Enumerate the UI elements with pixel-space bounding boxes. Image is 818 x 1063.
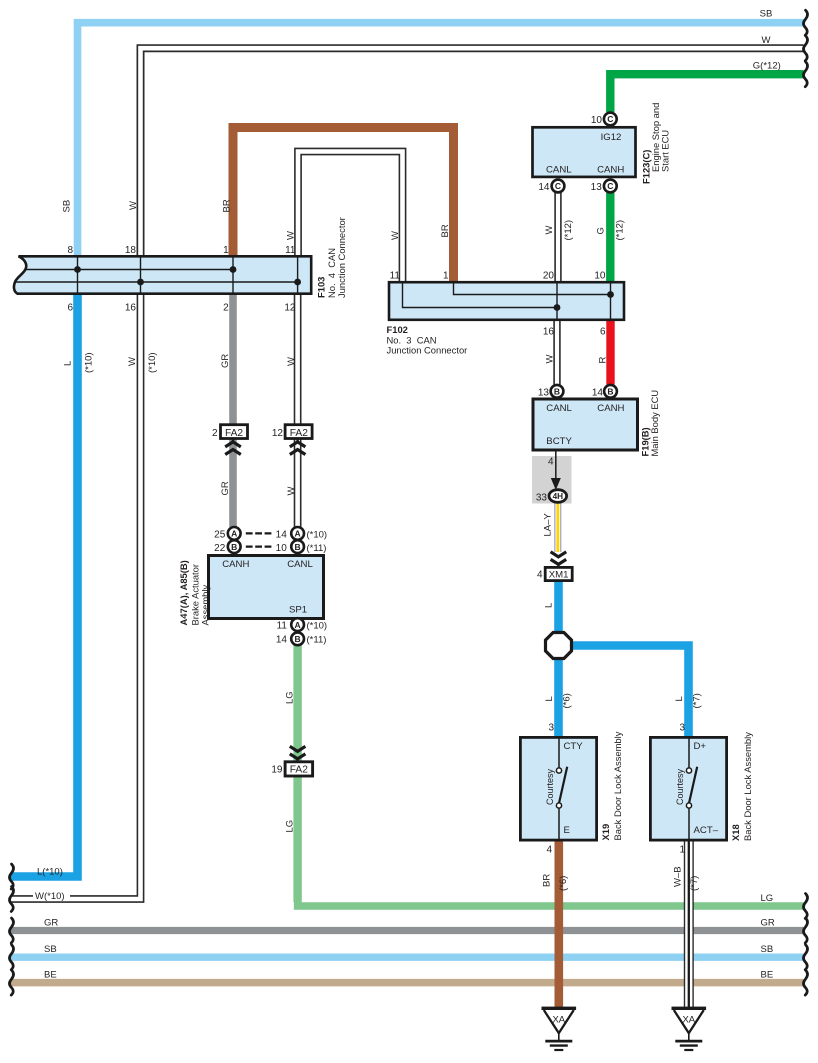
- svg-text:33: 33: [536, 493, 548, 504]
- svg-text:CANH: CANH: [597, 403, 624, 414]
- svg-text:14: 14: [538, 182, 550, 193]
- svg-text:2: 2: [223, 303, 229, 314]
- svg-text:R: R: [598, 357, 609, 364]
- svg-text:CANH: CANH: [222, 559, 249, 570]
- svg-text:4H: 4H: [553, 492, 564, 501]
- svg-text:C: C: [607, 181, 613, 191]
- svg-text:8: 8: [67, 245, 73, 256]
- svg-text:GR: GR: [220, 481, 231, 495]
- svg-text:6: 6: [67, 303, 73, 314]
- svg-text:L: L: [674, 696, 685, 701]
- svg-text:W: W: [286, 231, 297, 240]
- svg-text:CANL: CANL: [287, 559, 313, 570]
- svg-text:W: W: [545, 355, 556, 364]
- svg-text:10: 10: [276, 543, 288, 554]
- svg-text:14: 14: [276, 529, 288, 540]
- svg-text:3: 3: [548, 723, 554, 734]
- svg-text:Back Door Lock Assembly: Back Door Lock Assembly: [742, 732, 753, 841]
- svg-text:(*10): (*10): [84, 352, 95, 373]
- svg-text:4: 4: [548, 457, 554, 468]
- svg-text:W: W: [128, 201, 139, 210]
- svg-text:W: W: [390, 231, 401, 240]
- svg-text:12: 12: [284, 303, 296, 314]
- svg-text:14: 14: [276, 635, 288, 646]
- svg-text:W: W: [762, 35, 771, 46]
- svg-text:XA: XA: [682, 1015, 695, 1026]
- svg-text:18: 18: [125, 245, 137, 256]
- svg-text:X18: X18: [730, 824, 741, 841]
- svg-text:20: 20: [543, 271, 555, 282]
- svg-text:L(*10): L(*10): [37, 867, 63, 878]
- svg-text:IG12: IG12: [601, 132, 622, 143]
- svg-text:(*10): (*10): [307, 529, 328, 540]
- svg-text:11: 11: [390, 271, 401, 282]
- svg-text:B: B: [295, 634, 301, 644]
- svg-text:X19: X19: [600, 824, 611, 841]
- svg-text:E: E: [564, 825, 570, 836]
- svg-text:Courtesy: Courtesy: [675, 768, 685, 805]
- svg-text:25: 25: [214, 529, 226, 540]
- svg-text:CANL: CANL: [546, 403, 572, 414]
- svg-text:FA2: FA2: [225, 428, 243, 439]
- svg-text:11: 11: [285, 245, 296, 256]
- svg-text:A: A: [231, 529, 237, 539]
- svg-text:BCTY: BCTY: [546, 436, 572, 447]
- svg-text:ACT–: ACT–: [694, 825, 719, 836]
- svg-text:3: 3: [679, 723, 685, 734]
- svg-text:Courtesy: Courtesy: [545, 768, 555, 805]
- svg-text:SB: SB: [44, 944, 57, 955]
- svg-text:A: A: [295, 620, 301, 630]
- svg-text:Start ECU: Start ECU: [660, 130, 671, 172]
- svg-text:CANH: CANH: [597, 165, 624, 176]
- svg-text:LG: LG: [761, 893, 774, 904]
- svg-text:SP1: SP1: [289, 604, 307, 615]
- svg-text:W–B: W–B: [673, 866, 684, 887]
- svg-text:SB: SB: [760, 9, 773, 20]
- svg-text:L: L: [63, 361, 74, 366]
- svg-text:A: A: [295, 529, 301, 539]
- svg-text:BR: BR: [222, 199, 233, 212]
- svg-text:13: 13: [538, 388, 550, 399]
- svg-text:22: 22: [214, 543, 226, 554]
- svg-text:BR: BR: [440, 224, 451, 237]
- svg-text:W: W: [544, 226, 555, 235]
- svg-text:Junction Connector: Junction Connector: [336, 217, 347, 298]
- svg-text:(*6): (*6): [558, 876, 569, 891]
- svg-text:SB: SB: [761, 944, 774, 955]
- svg-text:19: 19: [271, 765, 283, 776]
- svg-text:Back Door Lock Assembly: Back Door Lock Assembly: [612, 731, 623, 840]
- svg-text:CANL: CANL: [546, 165, 572, 176]
- svg-text:16: 16: [125, 303, 137, 314]
- svg-text:L: L: [544, 603, 555, 608]
- svg-text:(*7): (*7): [692, 693, 703, 708]
- svg-text:Main Body ECU: Main Body ECU: [649, 390, 660, 457]
- svg-text:14: 14: [592, 388, 604, 399]
- svg-text:FA2: FA2: [290, 765, 308, 776]
- svg-text:BR: BR: [542, 874, 553, 887]
- svg-text:Assembly: Assembly: [200, 585, 211, 626]
- svg-text:GR: GR: [761, 917, 775, 928]
- svg-text:B: B: [295, 542, 301, 552]
- svg-text:13: 13: [591, 182, 603, 193]
- svg-text:(*10): (*10): [307, 620, 328, 631]
- svg-text:GR: GR: [44, 917, 58, 928]
- svg-text:4: 4: [546, 845, 552, 856]
- svg-text:LA–Y: LA–Y: [543, 513, 554, 537]
- svg-text:W(*10): W(*10): [35, 891, 65, 902]
- svg-text:1: 1: [223, 245, 229, 256]
- svg-text:C: C: [607, 114, 613, 124]
- svg-text:1: 1: [443, 271, 449, 282]
- svg-text:BE: BE: [761, 969, 774, 980]
- svg-text:W: W: [286, 487, 297, 496]
- svg-text:D+: D+: [694, 741, 707, 752]
- svg-text:XA: XA: [552, 1015, 565, 1026]
- svg-text:6: 6: [600, 327, 606, 338]
- svg-text:CTY: CTY: [564, 741, 584, 752]
- svg-text:BE: BE: [44, 969, 57, 980]
- svg-text:GR: GR: [220, 354, 231, 368]
- svg-text:B: B: [231, 542, 237, 552]
- svg-text:LG: LG: [285, 691, 296, 704]
- svg-text:(*12): (*12): [615, 220, 626, 241]
- svg-text:W: W: [127, 357, 138, 366]
- svg-text:2: 2: [212, 428, 218, 439]
- svg-text:L: L: [544, 696, 555, 701]
- svg-text:G(*12): G(*12): [753, 61, 781, 72]
- svg-text:(*6): (*6): [562, 693, 573, 708]
- svg-text:10: 10: [594, 271, 606, 282]
- svg-text:SB: SB: [62, 200, 73, 213]
- svg-text:16: 16: [543, 327, 555, 338]
- svg-text:(*12): (*12): [563, 220, 574, 241]
- svg-text:FA2: FA2: [290, 428, 308, 439]
- svg-text:Junction Connector: Junction Connector: [387, 345, 468, 356]
- svg-text:A47(A), A85(B): A47(A), A85(B): [178, 560, 189, 625]
- svg-text:B: B: [607, 387, 613, 397]
- svg-text:W: W: [286, 357, 297, 366]
- svg-text:LG: LG: [285, 820, 296, 833]
- svg-text:XM1: XM1: [549, 570, 569, 581]
- svg-text:11: 11: [277, 620, 288, 631]
- svg-text:12: 12: [272, 428, 284, 439]
- svg-text:(*10): (*10): [147, 352, 158, 373]
- svg-text:G: G: [596, 227, 607, 234]
- svg-text:10: 10: [591, 115, 603, 126]
- svg-text:1: 1: [679, 845, 685, 856]
- svg-text:(*7): (*7): [689, 876, 700, 891]
- svg-text:C: C: [555, 181, 561, 191]
- svg-text:B: B: [554, 387, 560, 397]
- svg-text:(*11): (*11): [307, 635, 327, 646]
- svg-text:(*11): (*11): [307, 543, 327, 554]
- svg-text:4: 4: [537, 570, 543, 581]
